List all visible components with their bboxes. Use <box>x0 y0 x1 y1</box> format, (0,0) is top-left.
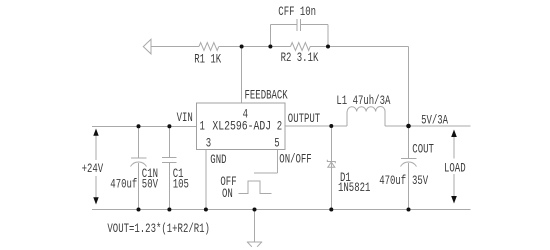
svg-text:VIN: VIN <box>177 112 193 126</box>
svg-text:CFF 10n: CFF 10n <box>278 6 316 20</box>
svg-text:VOUT=1.23*(1+R2/R1): VOUT=1.23*(1+R2/R1) <box>107 223 210 237</box>
svg-text:COUT: COUT <box>412 143 434 157</box>
svg-text:2: 2 <box>277 120 282 134</box>
svg-text:R2 3.1K: R2 3.1K <box>281 52 319 66</box>
svg-text:470uf: 470uf <box>110 178 137 192</box>
svg-text:XL2596-ADJ: XL2596-ADJ <box>212 119 271 134</box>
svg-text:1N5821: 1N5821 <box>338 182 371 196</box>
svg-text:LOAD: LOAD <box>444 162 466 176</box>
svg-text:L1 47uh/3A: L1 47uh/3A <box>336 95 390 109</box>
svg-text:105: 105 <box>173 178 189 192</box>
svg-text:1: 1 <box>200 120 206 134</box>
svg-text:+24V: +24V <box>82 163 104 177</box>
svg-text:35V: 35V <box>412 175 428 189</box>
svg-text:R1 1K: R1 1K <box>194 53 221 67</box>
svg-text:FEEDBACK: FEEDBACK <box>245 89 288 103</box>
svg-text:OUTPUT: OUTPUT <box>288 113 321 127</box>
svg-text:ON/OFF: ON/OFF <box>279 153 311 167</box>
svg-text:5V/3A: 5V/3A <box>421 114 448 128</box>
svg-text:470uf: 470uf <box>379 175 406 189</box>
svg-text:5: 5 <box>274 137 279 151</box>
svg-text:3: 3 <box>206 137 211 151</box>
svg-text:GND: GND <box>210 154 226 168</box>
svg-text:50V: 50V <box>142 178 158 192</box>
svg-text:ON: ON <box>222 188 233 202</box>
